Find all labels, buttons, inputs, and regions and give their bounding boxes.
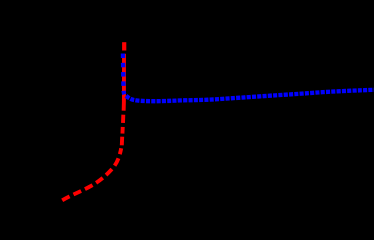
red dash segment v2: [120, 127, 124, 134]
blue dashed vertical branch: [123, 54, 124, 95]
red dash segment v1: [120, 137, 124, 146]
red dashed curve lower branch: [62, 148, 121, 200]
blue beaded horizontal branch: [126, 90, 374, 101]
red dash segment v3: [121, 115, 125, 123]
red top dash of asymptote: [122, 42, 126, 50]
red dash segment v4: [122, 102, 126, 111]
red vertical asymptote segment: [122, 54, 126, 102]
